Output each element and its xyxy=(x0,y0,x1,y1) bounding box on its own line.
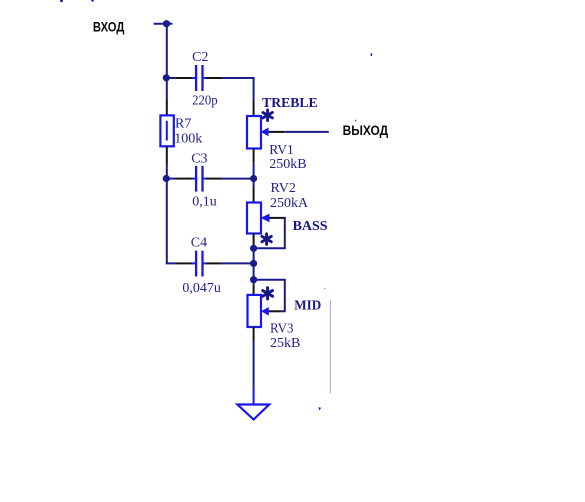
resistor R7 xyxy=(160,115,173,146)
svg-text:TREBLE: TREBLE xyxy=(262,96,318,111)
wiper arrow RV2 xyxy=(261,214,270,223)
wire left column C3 node to C4 corner xyxy=(166,179,168,263)
potentiometer RV1 xyxy=(247,116,261,149)
svg-text:RV3: RV3 xyxy=(270,321,294,336)
potentiometer RV2 xyxy=(247,203,261,234)
svg-text:250kB: 250kB xyxy=(269,157,306,172)
wire right column RV2 to BASS node xyxy=(253,234,255,249)
wire right column MID node to RV3 xyxy=(253,280,255,295)
artifact top edge dot 2 xyxy=(91,0,94,2)
svg-text:0,1u: 0,1u xyxy=(192,194,217,209)
wire C3 row left segment xyxy=(166,178,195,180)
wire RV3 to ground xyxy=(253,327,255,404)
asterisk RV1 xyxy=(263,110,272,121)
svg-text:C4: C4 xyxy=(191,235,207,250)
artifact faint vertical line xyxy=(330,300,331,393)
artifact tick right of C2 xyxy=(371,53,372,56)
svg-text:100k: 100k xyxy=(174,131,202,146)
svg-text:RV1: RV1 xyxy=(269,143,293,158)
junction input dot xyxy=(163,20,170,27)
artifact dot above ВЫХОД xyxy=(355,120,356,121)
svg-text:250kA: 250kA xyxy=(270,196,309,211)
junction MID node dot xyxy=(250,276,257,283)
wire C2 row left segment xyxy=(166,77,195,79)
svg-text:RV2: RV2 xyxy=(271,181,296,196)
asterisk RV3 xyxy=(263,288,273,299)
wire left column C2 node to R7 xyxy=(166,78,168,116)
capacitor C2 xyxy=(196,65,202,91)
wire C3 row right segment xyxy=(204,178,254,180)
svg-text:R7: R7 xyxy=(175,117,191,132)
svg-text:25kB: 25kB xyxy=(270,336,300,351)
wire left column input to C2 node xyxy=(166,24,168,78)
artifact top edge dot 1 xyxy=(60,0,63,2)
wire input stub xyxy=(154,23,173,25)
wire left column R7 to C3 node xyxy=(166,146,168,178)
svg-text:ВХОД: ВХОД xyxy=(93,19,125,35)
wire right column C3 node to RV2 xyxy=(253,179,255,203)
capacitor C3 xyxy=(196,166,202,192)
artifact faint dot left of line xyxy=(324,288,325,289)
wiper arrow RV1 xyxy=(261,128,269,137)
junction C3 right node dot xyxy=(250,175,257,182)
wire RV2 wiper loop xyxy=(254,217,285,248)
wire right column C4 node to MID node xyxy=(253,263,255,279)
wire right column RV1 to C3 node xyxy=(253,149,255,179)
junction BASS node dot xyxy=(250,245,257,252)
capacitor C4 xyxy=(196,251,202,277)
wiper arrow RV3 xyxy=(261,307,269,316)
artifact blue mark below ground right xyxy=(318,407,321,410)
ground xyxy=(237,405,269,420)
junction C2 node dot xyxy=(163,74,170,81)
svg-text:MID: MID xyxy=(294,298,321,313)
svg-text:C2: C2 xyxy=(192,50,208,65)
wire C2 row right segment xyxy=(204,78,254,116)
svg-text:C3: C3 xyxy=(191,151,207,166)
wire C4 corner and row left segment xyxy=(167,261,195,263)
wire right column BASS node to C4 node xyxy=(253,248,255,263)
svg-text:0,047u: 0,047u xyxy=(182,281,221,296)
svg-text:BASS: BASS xyxy=(293,219,328,234)
junction C4 node dot xyxy=(250,260,257,267)
potentiometer RV3 xyxy=(248,295,262,327)
svg-text:220p: 220p xyxy=(192,94,218,109)
svg-text:ВЫХОД: ВЫХОД xyxy=(343,122,389,138)
wire RV3 wiper loop xyxy=(254,280,285,312)
wire C4 row right segment xyxy=(204,262,254,264)
junction C3 left node dot xyxy=(163,175,170,182)
asterisk RV2 xyxy=(262,234,271,245)
wire RV1 wiper to ВЫХОД xyxy=(269,131,329,133)
